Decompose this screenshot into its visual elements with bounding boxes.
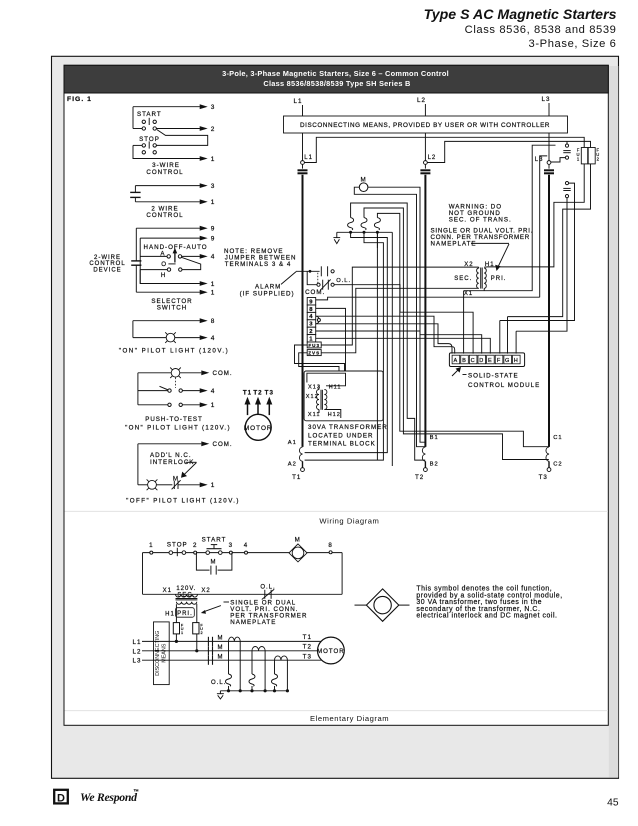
svg-text:MOTOR: MOTOR <box>244 425 273 432</box>
svg-text:CONTROL: CONTROL <box>146 169 183 176</box>
rule <box>65 710 609 712</box>
svg-text:3: 3 <box>211 104 216 111</box>
L3 drop <box>548 133 550 161</box>
OL1 top run <box>351 203 426 460</box>
fuse block ZVS <box>307 350 321 356</box>
wire to terminal 1 <box>133 145 200 158</box>
transformer block outline <box>304 371 383 421</box>
svg-text:M: M <box>218 645 224 651</box>
svg-text:X2: X2 <box>201 588 210 594</box>
terminal T2 <box>424 468 428 472</box>
svg-text:1: 1 <box>577 157 580 162</box>
svg-text:CONTROL MODULE: CONTROL MODULE <box>468 382 540 389</box>
svg-text:ZVS: ZVS <box>308 351 320 356</box>
disconnecting means box <box>284 116 568 133</box>
svg-text:™: ™ <box>133 789 140 795</box>
svg-text:120V.: 120V. <box>176 586 196 592</box>
svg-text:T3: T3 <box>539 474 548 481</box>
svg-text:NAMEPLATE: NAMEPLATE <box>431 241 477 248</box>
svg-text:1: 1 <box>211 290 216 297</box>
heater common bus <box>337 231 393 233</box>
dot2 branch <box>305 232 384 460</box>
H1 wire <box>484 266 486 268</box>
terminal strip <box>307 298 316 306</box>
svg-text:T1: T1 <box>303 634 312 641</box>
svg-text:X1: X1 <box>464 291 473 297</box>
M power contacts elem <box>207 637 209 646</box>
fuse block FU3 <box>307 342 321 348</box>
svg-text:ADD'L N.C.: ADD'L N.C. <box>150 452 192 459</box>
pointer to PRI <box>203 606 221 613</box>
wiring motor <box>245 414 271 440</box>
strip wire 1 <box>316 338 491 353</box>
svg-text:4: 4 <box>211 254 216 261</box>
svg-text:O.L.: O.L. <box>336 278 351 284</box>
pointer arrow <box>184 463 197 476</box>
svg-text:DISCONNECTING MEANS, PROVIDED: DISCONNECTING MEANS, PROVIDED BY USER OR… <box>300 122 550 129</box>
right riser 2 <box>540 156 548 297</box>
terminal T1 <box>301 468 305 472</box>
wire M left loop <box>354 187 425 447</box>
svg-text:1: 1 <box>211 281 216 288</box>
strip wire 8 <box>316 308 346 371</box>
wire to 1 <box>140 270 200 284</box>
svg-text:TERMINAL BLOCK: TERMINAL BLOCK <box>308 441 376 448</box>
svg-text:3: 3 <box>229 542 233 549</box>
svg-text:M: M <box>361 176 367 183</box>
wire to 1 <box>135 201 200 203</box>
svg-text:L3: L3 <box>133 658 142 665</box>
L1 phase conductor <box>302 175 304 447</box>
svg-text:4: 4 <box>211 335 216 342</box>
svg-text:4: 4 <box>211 388 216 395</box>
svg-text:3: 3 <box>309 322 313 328</box>
svg-text:2: 2 <box>309 329 313 335</box>
test contact <box>138 390 168 392</box>
wire module H <box>515 331 517 353</box>
svg-text:9: 9 <box>309 299 313 305</box>
mechanical link <box>175 378 177 389</box>
motor <box>318 637 345 664</box>
H2 wire down <box>483 288 485 290</box>
svg-text:COM.: COM. <box>213 370 233 377</box>
selector handle arrow <box>174 253 176 263</box>
wire to terminal 2 <box>156 128 200 130</box>
wire <box>302 461 304 467</box>
ground <box>336 232 338 237</box>
solid-state control module U1 <box>449 353 524 367</box>
fuse drops <box>175 634 177 642</box>
block stubs <box>318 385 320 390</box>
wire module G <box>507 317 509 354</box>
svg-text:T1: T1 <box>292 474 301 481</box>
svg-text:Class 8536/8538/8539 Type SH S: Class 8536/8538/8539 Type SH Series B <box>263 79 410 88</box>
svg-text:electrical interlock and DC ma: electrical interlock and DC magnet coil. <box>416 613 557 620</box>
svg-text:E: E <box>488 358 493 364</box>
svg-text:A: A <box>454 358 459 364</box>
svg-text:TERMINALS 3 & 4: TERMINALS 3 & 4 <box>225 261 292 268</box>
svg-text:1: 1 <box>211 482 216 489</box>
svg-text:PUSH-TO-TEST: PUSH-TO-TEST <box>145 416 203 423</box>
right leg <box>341 553 343 595</box>
svg-text:O.L.: O.L. <box>211 680 226 686</box>
right riser 1 <box>464 145 556 291</box>
svg-text:O: O <box>161 261 167 268</box>
wire from test switch top <box>500 183 575 320</box>
svg-text:L3: L3 <box>542 96 551 103</box>
svg-text:FU3: FU3 <box>308 343 320 348</box>
svg-text:2: 2 <box>200 631 203 635</box>
content panel <box>64 65 608 725</box>
svg-text:DEVICE: DEVICE <box>93 268 121 274</box>
svg-text:COM.: COM. <box>305 289 325 296</box>
ON pilot light: wire to 8 <box>133 320 200 322</box>
outer page frame <box>52 56 619 778</box>
fuse FU1 <box>581 148 587 164</box>
off pilot light: COM wire <box>138 443 201 445</box>
svg-text:C: C <box>471 358 476 364</box>
L1 contacts <box>302 164 304 168</box>
svg-text:L2: L2 <box>133 648 142 655</box>
ground bus <box>220 690 287 692</box>
svg-text:1: 1 <box>211 402 216 409</box>
svg-text:SEC. OF TRANS.: SEC. OF TRANS. <box>449 217 512 224</box>
OL heater 3 <box>374 218 380 230</box>
svg-text:L1: L1 <box>304 155 313 161</box>
FU3 left lead <box>295 345 345 371</box>
svg-text:STOP: STOP <box>167 542 188 549</box>
svg-text:DISCONNECTING: DISCONNECTING <box>155 631 161 676</box>
svg-text:"ON" PILOT LIGHT (120V.): "ON" PILOT LIGHT (120V.) <box>119 348 229 355</box>
test switch contact <box>565 182 568 185</box>
svg-text:MOTOR: MOTOR <box>317 648 345 655</box>
primary leads <box>175 604 177 622</box>
elem lower rung <box>143 593 343 595</box>
svg-text:H12: H12 <box>328 412 341 418</box>
svg-text:H: H <box>161 272 166 279</box>
fuse FU1 elem <box>173 623 179 634</box>
selector switch: wire to 9 <box>136 227 200 229</box>
single or dual text <box>224 601 230 603</box>
L3 contacts <box>544 169 554 171</box>
svg-text:F: F <box>497 358 501 364</box>
svg-text:Class 8536, 8538 and 8539: Class 8536, 8538 and 8539 <box>465 24 617 36</box>
pointer to PRI <box>498 244 510 268</box>
terminal 1 <box>150 551 153 554</box>
svg-text:H1: H1 <box>165 611 175 617</box>
svg-text:L1: L1 <box>133 639 142 646</box>
svg-text:B2: B2 <box>430 462 439 468</box>
lower contact <box>138 404 168 406</box>
wire <box>548 461 550 467</box>
svg-text:LOCATED UNDER: LOCATED UNDER <box>308 432 373 439</box>
FU1 lead to transformer H1 <box>487 164 585 267</box>
legend coil symbol <box>366 589 398 621</box>
svg-text:A1: A1 <box>288 440 297 446</box>
svg-text:We Respond: We Respond <box>80 790 138 804</box>
pilot light <box>133 337 166 339</box>
svg-text:CONTROL: CONTROL <box>89 261 125 267</box>
wire from test switch bottom <box>516 198 567 332</box>
svg-text:H11: H11 <box>329 385 342 391</box>
svg-text:L3: L3 <box>535 157 544 163</box>
svg-text:T1: T1 <box>243 389 252 396</box>
svg-text:45: 45 <box>607 798 619 809</box>
2 wire control: wire to 3 <box>135 185 200 187</box>
svg-text:B1: B1 <box>430 435 439 441</box>
svg-text:SEC.: SEC. <box>454 276 472 282</box>
contact device <box>134 186 136 193</box>
terminal 8 <box>329 551 332 554</box>
svg-text:C2: C2 <box>553 462 562 468</box>
svg-text:1: 1 <box>309 336 313 342</box>
square d logo <box>54 790 68 804</box>
svg-text:MEANS: MEANS <box>161 643 167 663</box>
svg-text:4: 4 <box>309 314 313 320</box>
svg-text:9: 9 <box>211 235 216 242</box>
L3 phase conductor <box>548 175 550 447</box>
inner leg <box>139 238 141 283</box>
svg-text:2: 2 <box>597 157 600 162</box>
strip wire 3 <box>316 324 449 344</box>
elem: top rung <box>143 552 343 554</box>
svg-text:SWITCH: SWITCH <box>157 304 187 311</box>
svg-text:D: D <box>479 358 484 364</box>
wire <box>156 130 207 146</box>
svg-text:T2: T2 <box>415 474 424 481</box>
OL3 top run <box>377 213 548 446</box>
svg-text:1: 1 <box>149 542 153 549</box>
svg-text:1: 1 <box>181 631 184 635</box>
OL heater 2 <box>361 218 367 230</box>
PRI box <box>176 608 195 618</box>
svg-text:PRI.: PRI. <box>491 276 507 282</box>
OL heater 1 <box>348 218 354 230</box>
svg-text:L2: L2 <box>428 155 437 161</box>
module pointer <box>452 369 459 376</box>
primary winding <box>176 602 196 605</box>
X1 wire <box>321 288 479 353</box>
svg-text:"OFF" PILOT LIGHT (120V.): "OFF" PILOT LIGHT (120V.) <box>126 497 240 504</box>
disconnecting means box elem <box>154 622 170 685</box>
svg-text:Type S AC Magnetic Starters: Type S AC Magnetic Starters <box>424 7 617 23</box>
svg-text:2-WIRE: 2-WIRE <box>94 255 121 261</box>
fuse FU2 elem <box>193 623 199 634</box>
title banner <box>64 65 608 93</box>
block secondary winding <box>317 390 320 410</box>
svg-text:COM.: COM. <box>213 441 233 448</box>
2-wire control device contact on left leg <box>135 228 137 261</box>
svg-text:"ON" PILOT LIGHT (120V.): "ON" PILOT LIGHT (120V.) <box>125 425 231 432</box>
OL2 top run <box>364 208 549 460</box>
svg-text:START: START <box>202 537 227 544</box>
svg-text:M: M <box>211 559 217 565</box>
wiring motor lead arrows <box>247 403 249 415</box>
svg-text:30VA TRANSFORMER: 30VA TRANSFORMER <box>308 424 388 431</box>
primary winding <box>484 268 486 288</box>
terminal T3 <box>547 468 551 472</box>
strip wire 4 <box>316 316 453 347</box>
svg-text:NAMEPLATE: NAMEPLATE <box>230 619 276 626</box>
wire module F <box>499 321 501 354</box>
wire module B <box>463 291 465 354</box>
X2 wire <box>321 267 479 345</box>
dot1 branch <box>305 232 388 452</box>
L3 tap wire <box>551 158 566 162</box>
wire <box>424 461 426 467</box>
svg-text:L1: L1 <box>294 98 303 105</box>
svg-text:4: 4 <box>244 542 248 549</box>
L1 drop <box>302 133 304 161</box>
strip wire 2 <box>316 331 482 354</box>
terminal 2 <box>194 551 197 554</box>
L2 tap wire <box>427 141 590 162</box>
wire to bottom 1 <box>136 291 200 293</box>
svg-text:H: H <box>514 358 519 364</box>
alarm contact <box>296 270 320 272</box>
L2 drop <box>424 133 426 161</box>
terminal 3 <box>229 551 232 554</box>
ZVS left lead <box>299 353 339 371</box>
svg-text:9: 9 <box>211 226 216 233</box>
svg-text:3: 3 <box>211 183 216 190</box>
secondary winding <box>176 594 198 597</box>
control fuse pull contact <box>566 141 568 144</box>
coil C <box>546 447 549 461</box>
svg-text:B: B <box>462 358 467 364</box>
OL sensor loops <box>229 637 241 641</box>
3-wire control: wire to terminal 3 <box>133 106 200 108</box>
OL aux contact <box>307 271 317 284</box>
terminal 4 <box>245 551 248 554</box>
alarm pointer <box>281 272 296 285</box>
link dashes <box>317 273 319 283</box>
core <box>480 268 482 289</box>
svg-text:SOLID-STATE: SOLID-STATE <box>468 373 519 380</box>
svg-text:T3: T3 <box>303 654 312 661</box>
dot3 branch <box>376 232 378 248</box>
block primary winding <box>324 390 327 410</box>
svg-text:8: 8 <box>211 318 216 325</box>
svg-text:M: M <box>218 636 224 642</box>
coil B <box>422 447 425 461</box>
rule <box>65 510 609 512</box>
svg-text:L2: L2 <box>417 97 426 104</box>
wire <box>132 107 134 129</box>
svg-text:8: 8 <box>328 542 332 549</box>
svg-text:START: START <box>137 111 162 118</box>
svg-text:(IF SUPPLIED): (IF SUPPLIED) <box>240 291 295 298</box>
svg-text:1: 1 <box>211 156 216 163</box>
svg-text:1: 1 <box>211 199 216 206</box>
svg-text:Elementary Diagram: Elementary Diagram <box>310 714 389 723</box>
block core <box>320 390 322 410</box>
wire M right <box>368 187 425 442</box>
ground symbol <box>219 691 221 694</box>
strip wire 9 <box>316 297 540 300</box>
left leg <box>142 553 144 595</box>
core lines <box>176 598 198 600</box>
jumper 3-4 <box>316 316 320 324</box>
svg-text:3-Pole, 3-Phase Magnetic Start: 3-Pole, 3-Phase Magnetic Starters, Size … <box>222 69 449 78</box>
svg-text:M: M <box>218 654 224 660</box>
svg-text:T2: T2 <box>303 643 312 650</box>
svg-text:FIG. 1: FIG. 1 <box>67 96 92 103</box>
L2 phase conductor <box>424 175 426 447</box>
svg-text:M: M <box>295 537 301 544</box>
fuse FU2 <box>588 148 595 164</box>
M holding contact branch <box>196 553 209 571</box>
push-to-test pilot light <box>171 369 180 378</box>
svg-text:D: D <box>57 793 65 805</box>
svg-text:2: 2 <box>193 542 197 549</box>
switch arm to H row <box>181 257 200 269</box>
svg-text:PRI.: PRI. <box>177 611 193 617</box>
svg-text:3-Phase, Size 6: 3-Phase, Size 6 <box>529 38 617 50</box>
wire to second 9 <box>140 237 200 239</box>
L1 tap wire <box>304 137 584 162</box>
svg-text:G: G <box>505 358 510 364</box>
svg-text:2: 2 <box>211 126 216 133</box>
L2 contacts <box>424 164 426 168</box>
wire <box>391 232 393 466</box>
inner wiring <box>307 373 346 386</box>
svg-text:8: 8 <box>309 307 313 313</box>
svg-text:T3: T3 <box>265 389 274 396</box>
COM wire to module C <box>334 285 473 354</box>
svg-text:C1: C1 <box>553 435 562 441</box>
coil A <box>299 447 302 461</box>
svg-text:ALARM: ALARM <box>255 283 281 290</box>
svg-text:CONTROL: CONTROL <box>146 212 183 219</box>
svg-text:X1: X1 <box>163 588 172 594</box>
svg-text:Wiring Diagram: Wiring Diagram <box>319 516 379 525</box>
svg-text:A2: A2 <box>288 462 297 468</box>
svg-text:T2: T2 <box>253 389 262 396</box>
FU2 lead <box>508 164 591 317</box>
secondary winding <box>478 267 480 268</box>
